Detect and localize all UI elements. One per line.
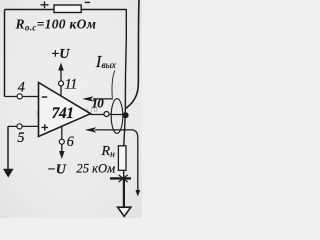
ground arrow (left): [3, 169, 14, 178]
wire: top feedback rail (left segment): [5, 9, 55, 11]
lower return arrow (pointing left) with curve to down wire: [95, 130, 138, 191]
resistor Roc body: [54, 5, 81, 13]
pin 6 stub wire: [61, 126, 63, 152]
terminal circle pin 11: [59, 81, 64, 86]
pin 6 current arrow down: [59, 151, 65, 159]
wire: resistor to ground bar: [123, 170, 125, 179]
wire: left feedback drop to inverting input: [4, 10, 6, 97]
X mark at bar crossing: [119, 175, 128, 182]
svg-text:−U: −U: [47, 163, 66, 178]
svg-text:5: 5: [17, 130, 24, 146]
small down arrow at end of return wire: [135, 190, 140, 197]
terminal circle pin 5: [17, 124, 22, 129]
wire: junction down to load resistor: [124, 115, 126, 146]
output current arrow (upper, pointing left): [93, 98, 113, 100]
pin 11 current arrow up: [58, 63, 64, 71]
hollow ground arrowhead: [118, 207, 131, 216]
output wire from apex to junction: [91, 114, 126, 116]
thick wire: bar down to arrow: [123, 179, 125, 207]
svg-text:6: 6: [67, 134, 75, 150]
feedback drop wire (right side): [125, 10, 126, 116]
junction node at output: [122, 112, 128, 118]
plus sign inside op-amp: [42, 124, 49, 130]
minus sign inside op-amp: [42, 96, 47, 98]
minus polarity mark at Roc right: [85, 1, 90, 3]
wire: non-inverting input (pin 5): [8, 125, 39, 127]
wire: pin5 ground drop: [7, 126, 9, 169]
terminal circle pin 4: [17, 94, 22, 99]
current loop ellipse: [111, 99, 123, 134]
load resistor Rn body: [118, 146, 126, 171]
terminal circle pin 6: [59, 139, 64, 144]
wire: inverting input (pin 4): [5, 96, 39, 98]
plus polarity mark at Roc left: [41, 1, 49, 8]
svg-text:11: 11: [65, 77, 77, 93]
wire: top feedback rail (right segment): [81, 9, 127, 11]
leader line from label to ellipse: [112, 71, 115, 99]
svg-text:4: 4: [18, 79, 25, 95]
ground bar: [110, 177, 131, 179]
svg-text:10: 10: [92, 96, 105, 111]
terminal circle pin 10: [104, 112, 109, 117]
svg-text:+U: +U: [51, 47, 70, 62]
op-amp U1 (741) triangle: [39, 83, 91, 137]
pin 11 stub wire: [60, 70, 62, 96]
svg-text:25 кОм: 25 кОм: [76, 161, 115, 175]
wire: right outer loop into output junction: [126, 0, 139, 109]
svg-text:741: 741: [52, 105, 74, 122]
